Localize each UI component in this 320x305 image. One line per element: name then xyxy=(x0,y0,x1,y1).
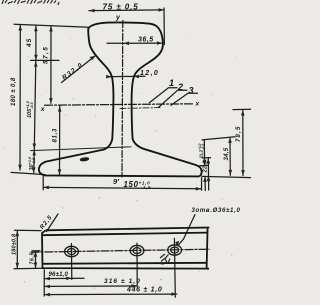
svg-text:81,3: 81,3 xyxy=(53,128,59,142)
svg-text:9': 9' xyxy=(113,177,119,186)
svg-text:180 ± 0,8: 180 ± 0,8 xyxy=(11,77,17,106)
svg-text:78,5: 78,5 xyxy=(236,126,242,142)
svg-text:1: 1 xyxy=(169,78,174,88)
svg-text:45: 45 xyxy=(26,38,33,48)
svg-text:57,5: 57,5 xyxy=(43,46,50,64)
svg-text:180±0,8: 180±0,8 xyxy=(12,233,18,255)
svg-text:3отв.Ø36±1,0: 3отв.Ø36±1,0 xyxy=(192,208,241,214)
svg-text:22,6: 22,6 xyxy=(203,160,209,174)
svg-text:75 ± 0,5: 75 ± 0,5 xyxy=(103,3,139,12)
svg-text:x: x xyxy=(195,101,200,108)
svg-text:3: 3 xyxy=(189,86,194,96)
svg-text:2: 2 xyxy=(177,82,183,92)
svg-text:76,5: 76,5 xyxy=(30,252,36,265)
svg-text:30+1,0-1,5: 30+1,0-1,5 xyxy=(28,156,36,171)
svg-text:316 ± 1,0: 316 ± 1,0 xyxy=(104,278,141,285)
svg-text:36,5: 36,5 xyxy=(138,37,154,44)
svg-text:446 ± 1,0: 446 ± 1,0 xyxy=(126,287,162,294)
svg-text:12,0: 12,0 xyxy=(140,70,159,77)
svg-text:34,5: 34,5 xyxy=(224,147,230,160)
svg-text:105+1,0-0,3: 105+1,0-0,3 xyxy=(26,100,34,118)
svg-text:150+1,0-1,5: 150+1,0-1,5 xyxy=(124,180,152,190)
svg-text:96±1,0: 96±1,0 xyxy=(49,272,69,278)
